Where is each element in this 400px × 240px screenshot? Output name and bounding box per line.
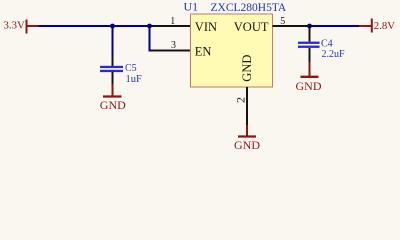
svg-text:3.3V: 3.3V <box>4 20 25 32</box>
wire output rail <box>310 25 359 27</box>
capacitor C4 <box>298 26 345 62</box>
capacitor C5 <box>100 56 142 85</box>
node junction at C4 <box>307 24 312 29</box>
ground GND (C5) <box>100 84 126 112</box>
svg-text:2.2uF: 2.2uF <box>322 49 346 60</box>
svg-text:EN: EN <box>195 44 212 58</box>
wire input rail <box>39 25 151 27</box>
op-amp U1 body <box>191 14 273 87</box>
power port 3.3V <box>4 20 39 34</box>
svg-text:GND: GND <box>296 79 322 93</box>
pin 5 VOUT <box>273 16 311 27</box>
svg-text:1uF: 1uF <box>126 74 143 85</box>
svg-text:U1: U1 <box>184 0 199 14</box>
svg-text:C5: C5 <box>125 63 137 74</box>
ground GND (C4) <box>296 62 322 93</box>
wire C5 drop <box>112 26 114 57</box>
svg-text:5: 5 <box>280 16 285 27</box>
power port 2.8V <box>359 19 395 33</box>
svg-text:2.8V: 2.8V <box>374 20 395 32</box>
wire EN branch <box>150 26 153 51</box>
node junction at EN branch <box>147 24 152 29</box>
svg-text:C4: C4 <box>321 38 333 49</box>
pin 1 VIN <box>151 16 191 27</box>
svg-text:GND: GND <box>240 55 254 82</box>
node junction at C5 <box>110 24 115 29</box>
svg-text:3: 3 <box>171 40 176 51</box>
ground GND (U1 pin 2) <box>234 125 260 152</box>
pin 3 EN <box>151 40 191 51</box>
svg-text:2: 2 <box>234 97 248 103</box>
svg-text:1: 1 <box>170 16 175 27</box>
svg-text:VIN: VIN <box>195 20 217 34</box>
svg-text:GND: GND <box>234 138 260 152</box>
svg-text:ZXCL280H5TA: ZXCL280H5TA <box>211 2 287 14</box>
svg-text:GND: GND <box>100 98 126 112</box>
pin 2 GND <box>234 87 248 125</box>
svg-text:VOUT: VOUT <box>234 20 269 34</box>
